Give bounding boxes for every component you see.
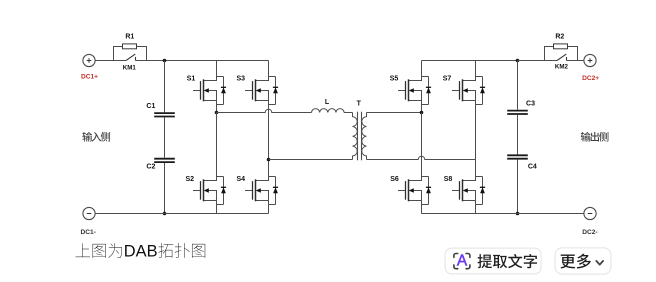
wire C4 to bottom rail	[517, 160, 519, 214]
icon: chevron down	[596, 261, 603, 265]
wire S5 source to node M3	[421, 105, 423, 113]
capacitor C4	[507, 154, 528, 156]
svg-text:S5: S5	[390, 76, 399, 83]
resistor R1 (pre-charge branch)	[114, 47, 147, 61]
button: extract text	[445, 248, 541, 274]
transistor S3 (N-MOSFET with body diode)	[245, 77, 276, 105]
wire C2 to bottom rail	[164, 163, 166, 214]
wire C3 lead	[517, 61, 519, 110]
wire inductor to transformer primary	[344, 112, 352, 114]
wire DC1+ to KM1 contact	[95, 60, 126, 62]
transistor S5 (N-MOSFET with body diode)	[398, 77, 429, 105]
wire top rail of right bridge	[422, 60, 518, 62]
svg-text:C1: C1	[146, 103, 155, 110]
resistor R2 (pre-charge branch)	[545, 47, 578, 61]
caption: 上图为 DAB 拓扑图	[76, 243, 90, 257]
wire S7 source down through midpoint to S8 drain	[475, 105, 477, 177]
svg-text:L: L	[325, 99, 330, 106]
node M2 (S3/S4 midpoint)	[267, 158, 271, 162]
wire bottom rail of right bridge	[422, 213, 584, 215]
button text: more CJK	[560, 254, 575, 268]
wire bottom rail of left bridge	[95, 213, 268, 215]
transformer T secondary winding	[362, 113, 367, 160]
transistor S2 (N-MOSFET with body diode)	[193, 177, 224, 205]
transistor S8 (N-MOSFET with body diode)	[452, 177, 483, 205]
wire S3 drain riser	[268, 61, 270, 77]
capacitor C2	[154, 158, 175, 160]
icon: OCR scan brackets	[454, 254, 470, 269]
node N3 (C3 top junction)	[516, 59, 520, 63]
svg-text:S2: S2	[186, 176, 195, 183]
wire S1 source to node M1	[216, 105, 218, 113]
switch KM1 (contactor blade)	[126, 54, 135, 60]
wire top rail of left bridge	[165, 60, 269, 62]
wire S8 source to bottom rail	[475, 205, 477, 214]
transistor S1 (N-MOSFET with body diode)	[193, 77, 224, 105]
wire KM2 to DC2+ terminal	[567, 60, 584, 62]
node N1 (C1 top junction)	[163, 59, 167, 63]
node M1 (S1/S2 midpoint)	[215, 111, 219, 115]
wire secondary bottom to S7/S8 midpoint (hops over S5/S6 leg)	[367, 156, 476, 159]
wire S6 source to bottom rail	[421, 205, 423, 214]
svg-text:C3: C3	[526, 101, 535, 108]
svg-text:S3: S3	[237, 76, 246, 83]
wire KM1 to node N1	[136, 60, 165, 62]
switch KM2 (contactor blade)	[557, 54, 566, 60]
svg-text:S7: S7	[443, 75, 452, 82]
wire S3 source down through node M2 to S4 drain	[268, 105, 270, 177]
transistor S4 (N-MOSFET with body diode)	[245, 177, 276, 205]
svg-text:DC2+: DC2+	[582, 75, 599, 82]
capacitor C3	[507, 110, 528, 112]
label output side (CJK: shu-chu-ce)	[581, 132, 591, 142]
wire S2 source to bottom rail	[216, 205, 218, 214]
wire S1 drain riser	[216, 61, 218, 77]
wire node M2 to transformer primary bottom	[269, 159, 353, 161]
inductor L	[312, 109, 345, 113]
svg-text:S6: S6	[390, 176, 399, 183]
wire S5 drain riser	[421, 61, 423, 77]
svg-text:DC1-: DC1-	[81, 229, 96, 236]
terminal DC1+	[83, 54, 95, 66]
svg-text:S8: S8	[444, 176, 453, 183]
transistor S7 (N-MOSFET with body diode)	[452, 77, 483, 105]
terminal DC2+	[584, 54, 596, 66]
wire C1 lead	[164, 61, 166, 113]
button text: extract text CJK	[478, 254, 492, 268]
node N4 (C4 bottom junction)	[516, 212, 520, 216]
wire C1 to C2	[164, 117, 166, 157]
wire top rail N3 to KM2 contact	[518, 60, 558, 62]
svg-text:R1: R1	[125, 34, 134, 41]
svg-text:T: T	[357, 101, 362, 108]
terminal DC1-	[83, 207, 95, 219]
svg-text:S4: S4	[237, 176, 246, 183]
svg-text:C4: C4	[528, 163, 537, 170]
capacitor C1	[154, 112, 175, 114]
wire node M1 to S2 drain	[216, 113, 218, 177]
label input side (CJK: shu-ru-ce)	[82, 132, 92, 142]
svg-text:A: A	[457, 253, 468, 270]
wire C3 to C4	[517, 115, 519, 154]
svg-text:S1: S1	[187, 76, 196, 83]
wire node M1 to inductor (hops over S3/S4 leg)	[217, 109, 312, 112]
svg-text:KM2: KM2	[555, 64, 569, 71]
svg-text:DC2-: DC2-	[582, 229, 597, 236]
svg-text:R2: R2	[555, 34, 564, 41]
node N2 (C2 bottom junction)	[163, 212, 167, 216]
wire transformer secondary top to node M3	[367, 112, 422, 114]
node M3 (S5/S6 midpoint)	[420, 111, 424, 115]
svg-text:KM1: KM1	[123, 65, 137, 72]
terminal DC2-	[584, 207, 596, 219]
wire S4 source to bottom rail	[268, 205, 270, 214]
svg-text:DC1+: DC1+	[81, 73, 98, 80]
wire S7 drain riser	[475, 61, 477, 77]
transformer T core	[357, 112, 359, 161]
svg-text:C2: C2	[146, 163, 155, 170]
button: more	[555, 248, 611, 274]
transistor S6 (N-MOSFET with body diode)	[398, 177, 429, 205]
svg-text:DAB: DAB	[124, 243, 158, 261]
wire node M3 to S6 drain	[421, 113, 423, 177]
transformer T primary winding	[353, 113, 358, 160]
